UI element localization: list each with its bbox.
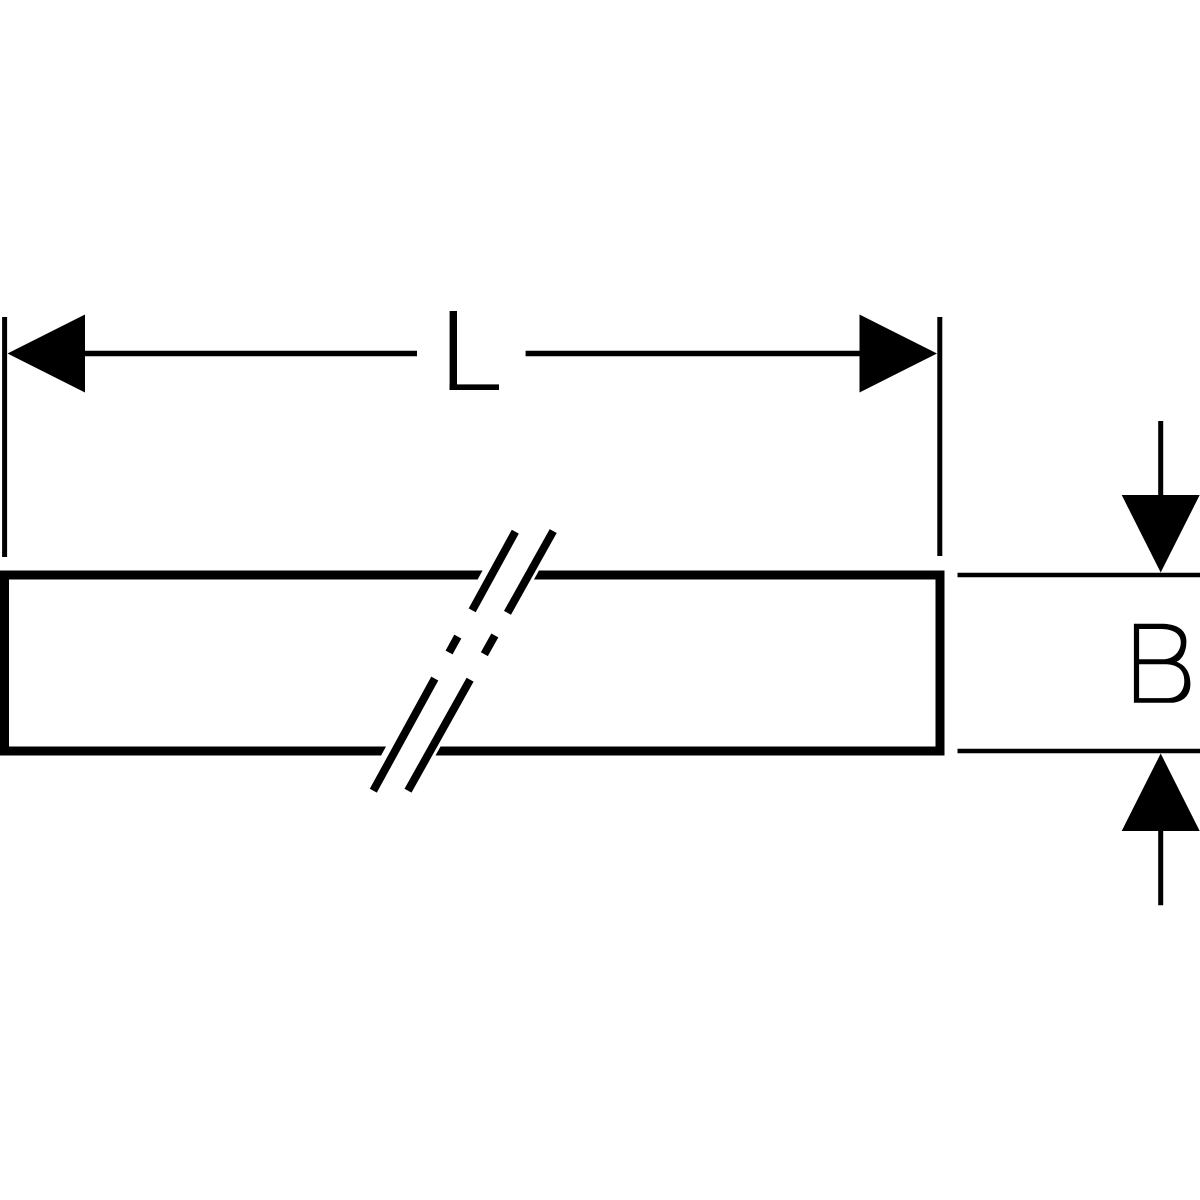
break white gap (erases bar edges between break lines) <box>362 531 561 791</box>
bar body (rectangle of the profile, stroke 9) <box>5 575 941 751</box>
dimension line L right segment <box>526 351 860 357</box>
dimension line L left segment <box>84 351 417 357</box>
B up arrowhead <box>1122 754 1200 832</box>
arrowhead left (L) <box>8 315 86 393</box>
extension line left (L dimension) <box>2 317 7 557</box>
B up-arrow stem <box>1158 830 1163 905</box>
B down-arrow stem <box>1158 421 1163 496</box>
label L <box>450 311 499 390</box>
B down arrowhead <box>1122 495 1200 573</box>
arrowhead right (L) <box>860 315 938 393</box>
extension line right (L dimension) <box>937 317 942 556</box>
extension line bottom (B dimension) <box>958 749 1200 754</box>
break line 2 (dashed diagonal) <box>408 531 553 791</box>
label B <box>1134 624 1191 703</box>
break line 1 (dashed diagonal) <box>373 532 515 791</box>
extension line top (B dimension) <box>958 573 1200 578</box>
